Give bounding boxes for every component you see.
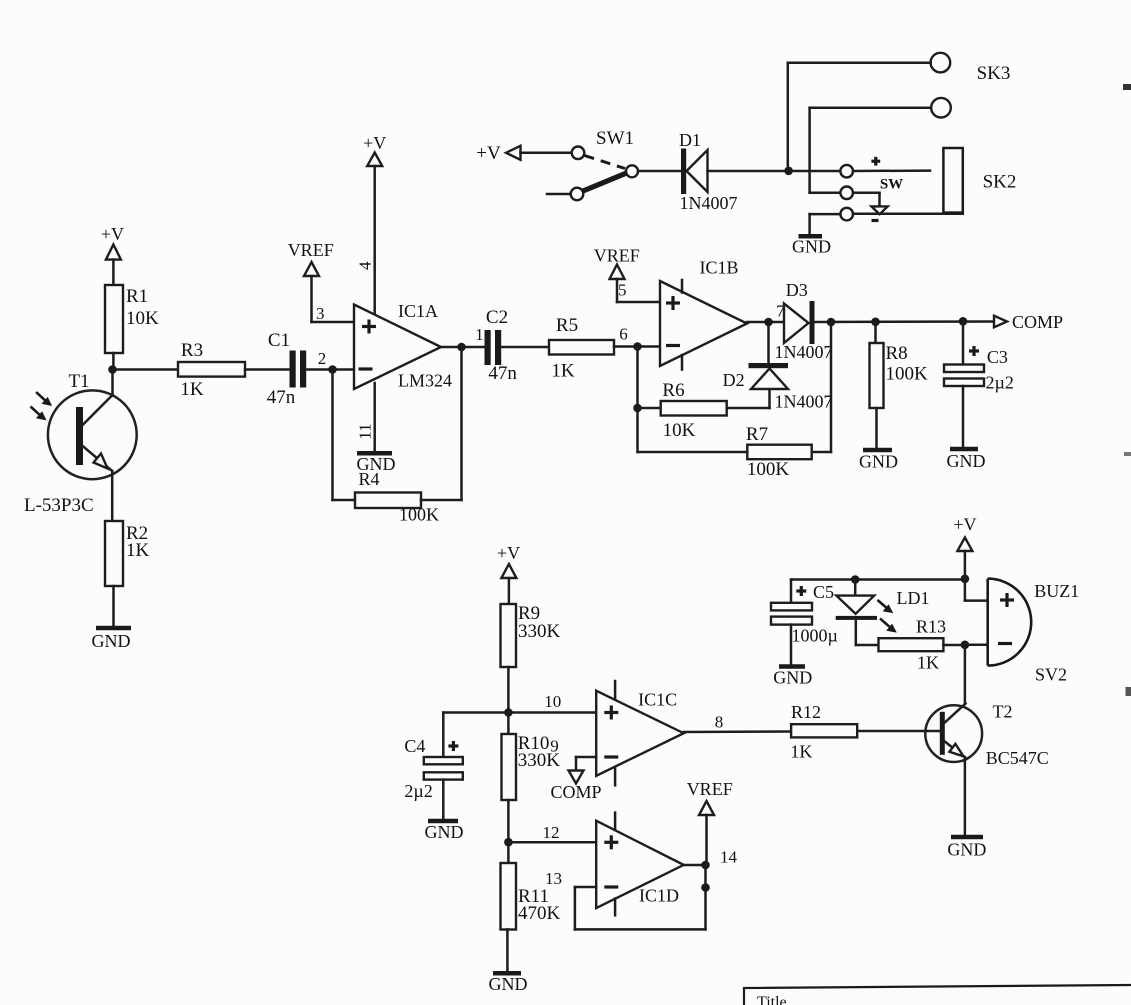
resistor R11 xyxy=(501,863,517,930)
buzzer BUZ1 xyxy=(965,579,1031,666)
svg-text:C1: C1 xyxy=(268,330,290,351)
net VREF (pin 14) xyxy=(687,779,733,865)
wire C1 to node 2 xyxy=(306,368,332,371)
power +V (pin 4) xyxy=(363,133,386,314)
svg-text:1K: 1K xyxy=(551,361,575,382)
svg-text:5: 5 xyxy=(618,281,627,300)
net VREF (pin 3) xyxy=(288,240,354,322)
wire node 2 feedback down xyxy=(331,370,334,501)
svg-text:+V: +V xyxy=(953,515,976,535)
svg-text:10K: 10K xyxy=(126,308,159,329)
socket SK3 pin 1 xyxy=(788,53,950,171)
svg-text:1000µ: 1000µ xyxy=(792,626,838,646)
C3 polarity plus xyxy=(969,346,979,356)
wire to R8 xyxy=(874,322,877,343)
svg-text:SW: SW xyxy=(880,177,903,193)
socket SK3 pin 2 xyxy=(810,98,951,193)
ground (R8) xyxy=(859,450,898,472)
svg-text:R6: R6 xyxy=(662,380,684,401)
op-amp U1B (IC1B) xyxy=(660,280,747,370)
svg-text:11: 11 xyxy=(356,423,375,439)
svg-text:LD1: LD1 xyxy=(897,588,930,608)
net COMP (IC1C inverting input) xyxy=(550,757,601,802)
pin 11 ground stem xyxy=(373,383,376,452)
resistor R4 xyxy=(355,493,421,509)
svg-text:8: 8 xyxy=(715,713,724,732)
socket SK2 switch pin xyxy=(840,187,887,215)
scan mark right edge top xyxy=(1123,84,1131,90)
svg-text:GND: GND xyxy=(947,840,986,860)
plus label (SK2) xyxy=(871,157,880,166)
ground (R2) xyxy=(92,628,132,651)
svg-text:+V: +V xyxy=(497,543,520,563)
svg-text:GND: GND xyxy=(489,974,528,994)
capacitor C3 xyxy=(944,365,984,449)
svg-text:R13: R13 xyxy=(916,617,946,637)
node A junction (R1/T1/R3) xyxy=(108,365,117,374)
svg-text:2: 2 xyxy=(318,349,327,368)
svg-text:1N4007: 1N4007 xyxy=(775,342,833,362)
power +V (R9) xyxy=(497,543,520,604)
svg-text:1: 1 xyxy=(475,325,484,344)
wire SW1 to D1 xyxy=(638,170,681,173)
ground (C3) xyxy=(947,449,986,471)
svg-text:C4: C4 xyxy=(404,736,425,756)
svg-text:12: 12 xyxy=(543,823,560,842)
svg-text:COMP: COMP xyxy=(1012,312,1063,332)
resistor R7 xyxy=(747,445,811,460)
wire node 10 to IC1C noninverting input xyxy=(508,711,596,714)
wire to R4 xyxy=(333,499,356,502)
resistor R9 xyxy=(501,604,517,667)
svg-text:R3: R3 xyxy=(181,340,203,361)
junction pin 6 xyxy=(633,342,642,351)
svg-text:SK3: SK3 xyxy=(977,63,1011,84)
svg-text:IC1A: IC1A xyxy=(398,301,438,321)
wire R2 to ground xyxy=(112,586,115,627)
wire node 2 to IC1A inverting input xyxy=(333,368,355,371)
svg-text:R4: R4 xyxy=(358,469,379,489)
junction LD1 anode xyxy=(851,575,860,584)
svg-text:1N4007: 1N4007 xyxy=(775,392,833,412)
scan mark right edge lower xyxy=(1124,452,1131,456)
wire to C3 xyxy=(962,321,965,364)
resistor R12 xyxy=(791,724,857,737)
resistor R2 xyxy=(105,521,123,586)
svg-text:T2: T2 xyxy=(993,702,1013,722)
capacitor C5 xyxy=(771,603,812,665)
junction +V rail xyxy=(961,575,970,584)
junction node 10 xyxy=(504,708,513,717)
ground (C4) xyxy=(425,821,464,842)
resistor R13 xyxy=(879,638,944,651)
svg-text:GND: GND xyxy=(947,451,986,471)
svg-text:10K: 10K xyxy=(663,420,696,441)
transistor T2 xyxy=(925,704,982,762)
LED LD1 xyxy=(836,580,879,646)
svg-text:D2: D2 xyxy=(723,370,745,390)
svg-text:GND: GND xyxy=(773,668,812,688)
ground (SK2) xyxy=(792,236,831,256)
wire node A to R3 xyxy=(113,368,179,371)
wire R11 to ground xyxy=(506,929,509,972)
svg-text:6: 6 xyxy=(619,325,628,344)
wire junction to SK2 plus pin xyxy=(789,170,841,173)
svg-text:GND: GND xyxy=(92,631,131,651)
svg-text:330K: 330K xyxy=(518,621,561,642)
wire R13 to buzzer minus node xyxy=(943,644,965,647)
svg-text:IC1C: IC1C xyxy=(638,690,677,710)
capacitor C1 xyxy=(290,351,307,388)
svg-text:3: 3 xyxy=(316,304,325,323)
svg-text:D3: D3 xyxy=(786,280,808,300)
wire R12 to T2 base xyxy=(857,730,940,733)
svg-text:100K: 100K xyxy=(886,364,929,385)
C4 polarity plus xyxy=(448,741,458,751)
svg-text:GND: GND xyxy=(425,822,464,842)
svg-text:L-53P3C: L-53P3C xyxy=(24,495,94,516)
wire R4 to output node xyxy=(421,347,462,500)
junction buzzer minus xyxy=(961,641,970,650)
wire D1 to junction xyxy=(708,170,789,173)
svg-text:R12: R12 xyxy=(791,702,821,722)
svg-text:2µ2: 2µ2 xyxy=(986,373,1014,393)
capacitor C2 xyxy=(485,330,502,365)
svg-text:+V: +V xyxy=(363,133,386,153)
wire R8 to ground xyxy=(875,408,878,449)
op-amp U1A (IC1A) xyxy=(354,305,441,390)
wire feedback through R7 xyxy=(812,322,831,452)
svg-text:C3: C3 xyxy=(987,347,1008,367)
resistor R6 xyxy=(661,401,727,416)
junction feedback xyxy=(701,883,710,892)
junction supply node xyxy=(784,167,793,176)
svg-text:GND: GND xyxy=(792,237,831,257)
wire R10 to R11 xyxy=(507,800,510,863)
junction D2/D3 node xyxy=(764,318,773,327)
resistor R3 xyxy=(178,362,245,377)
svg-text:SW1: SW1 xyxy=(596,128,634,149)
power +V (output stage) xyxy=(953,515,976,579)
wire C2 to R5 xyxy=(501,346,549,349)
wire node 12 to IC1D noninverting input xyxy=(508,841,596,844)
wire IC1C output to R12 xyxy=(684,730,791,733)
svg-text:R5: R5 xyxy=(556,315,578,336)
svg-text:10: 10 xyxy=(544,692,561,711)
node 2 junction xyxy=(328,365,337,374)
wire IC1B output to D3 xyxy=(747,321,784,324)
svg-text:COMP: COMP xyxy=(550,782,601,802)
wire R6 to D2 anode xyxy=(727,389,770,408)
diode D3 xyxy=(784,301,815,344)
svg-text:2µ2: 2µ2 xyxy=(404,781,432,801)
svg-text:R8: R8 xyxy=(886,343,908,364)
transistor T1 xyxy=(48,370,137,522)
wire T2 emitter to ground xyxy=(964,757,967,836)
svg-text:1K: 1K xyxy=(917,653,939,673)
svg-text:100K: 100K xyxy=(747,459,790,480)
svg-text:BUZ1: BUZ1 xyxy=(1034,581,1079,601)
minus label (SK2) xyxy=(872,219,879,222)
svg-text:47n: 47n xyxy=(488,363,517,384)
op-amp U1D (IC1D) xyxy=(596,813,684,916)
wire R9 to node 10 xyxy=(507,667,510,734)
op-amp U1C (IC1C) xyxy=(596,681,684,785)
junction C3 tap xyxy=(959,317,968,326)
svg-text:C2: C2 xyxy=(486,307,508,328)
resistor R5 xyxy=(549,340,614,355)
svg-text:+V: +V xyxy=(476,143,501,164)
svg-text:VREF: VREF xyxy=(288,240,334,260)
svg-text:R7: R7 xyxy=(746,424,768,445)
svg-text:T1: T1 xyxy=(68,371,89,392)
wire R1 to node A xyxy=(112,353,115,370)
svg-text:BC547C: BC547C xyxy=(986,748,1049,768)
svg-text:VREF: VREF xyxy=(687,779,733,799)
diode D1 xyxy=(681,149,708,195)
resistor R1 xyxy=(105,285,123,353)
junction R7 feedback xyxy=(827,318,836,327)
wire R7 to bus xyxy=(638,451,748,454)
wire IC1A output xyxy=(441,346,485,349)
wire IC1D feedback loop xyxy=(575,865,706,929)
LD1 light arrows xyxy=(878,600,897,633)
svg-text:1K: 1K xyxy=(126,540,150,561)
resistor R8 xyxy=(870,343,884,408)
svg-text:IC1B: IC1B xyxy=(699,258,738,278)
switch SW1 xyxy=(547,147,638,201)
wire buzzer minus to T2 collector xyxy=(964,645,967,704)
connector SK2 body xyxy=(943,148,962,213)
ground (T2) xyxy=(947,837,986,860)
wire bus to R6 xyxy=(638,407,661,410)
svg-text:470K: 470K xyxy=(518,903,561,924)
socket SK2 minus pin xyxy=(810,208,963,235)
svg-text:+V: +V xyxy=(101,224,124,244)
junction R6 tap xyxy=(633,404,642,413)
junction node 12 xyxy=(504,838,513,847)
capacitor C4 xyxy=(424,757,463,820)
svg-text:4: 4 xyxy=(356,261,375,270)
svg-text:IC1D: IC1D xyxy=(639,886,679,906)
svg-text:LM324: LM324 xyxy=(398,371,452,391)
ground (C5) xyxy=(773,667,812,688)
svg-text:SK2: SK2 xyxy=(983,172,1017,193)
title block frame xyxy=(744,985,1131,1005)
power +V (T1 branch) xyxy=(101,224,124,285)
svg-text:1K: 1K xyxy=(180,379,204,400)
svg-text:47n: 47n xyxy=(267,387,296,408)
net VREF (pin 5) xyxy=(594,246,660,303)
wire top rail xyxy=(791,580,965,603)
scan mark right edge middle xyxy=(1126,687,1131,696)
junction R8 tap xyxy=(871,318,880,327)
svg-text:SV2: SV2 xyxy=(1035,665,1067,685)
light arrows into T1 xyxy=(31,392,53,420)
junction pin 14 node xyxy=(701,861,710,870)
svg-text:Title: Title xyxy=(757,994,787,1005)
svg-text:1N4007: 1N4007 xyxy=(680,193,738,213)
svg-text:1K: 1K xyxy=(790,742,812,762)
wire feedback bus vertical xyxy=(636,347,639,453)
svg-text:D1: D1 xyxy=(679,130,701,150)
wire IC1D output xyxy=(684,864,706,867)
C5 polarity plus xyxy=(796,586,806,596)
wire R5 to pin 6 xyxy=(614,345,660,348)
resistor R10 xyxy=(502,734,517,800)
svg-text:R1: R1 xyxy=(126,286,148,307)
diode D2 xyxy=(749,322,789,389)
wire R3 to C1 xyxy=(245,368,290,371)
svg-text:330K: 330K xyxy=(518,750,561,771)
ground (R11) xyxy=(489,973,528,994)
wire node 10 to C4 xyxy=(443,713,508,758)
wire D3 to COMP xyxy=(815,320,995,323)
power +V (SW1) xyxy=(476,143,571,164)
socket SK2 plus pin xyxy=(840,165,930,178)
junction IC1A output xyxy=(457,343,466,352)
svg-text:100K: 100K xyxy=(399,505,439,525)
svg-text:GND: GND xyxy=(859,452,898,472)
svg-text:C5: C5 xyxy=(813,582,834,602)
net COMP output xyxy=(994,312,1063,332)
svg-text:14: 14 xyxy=(720,848,738,867)
ground (pin 11) xyxy=(357,453,396,474)
